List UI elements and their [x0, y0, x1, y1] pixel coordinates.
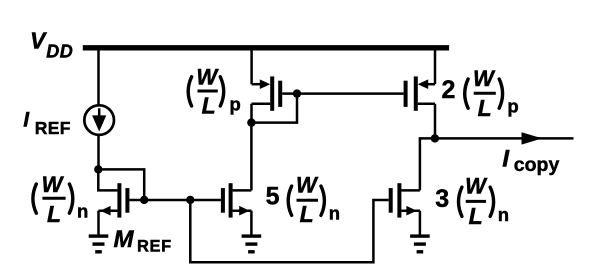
wire gate bus down and across to M3 gate [190, 200, 388, 262]
svg-text:n: n [329, 202, 340, 223]
label (W/L)n for MREF [33, 172, 88, 227]
label IREF [23, 109, 71, 138]
svg-text:2: 2 [442, 76, 456, 104]
transistor M3 3(W/L)n (NMOS, gate on left) [389, 183, 420, 217]
svg-text:L: L [478, 95, 492, 121]
svg-text:REF: REF [35, 118, 71, 138]
wire MP2 drain down to node F [434, 104, 437, 139]
label 3(W/L)n [435, 174, 509, 230]
svg-text:p: p [507, 96, 518, 117]
svg-text:L: L [202, 92, 216, 118]
svg-text:n: n [77, 201, 88, 222]
svg-text:5: 5 [266, 183, 280, 211]
wire IREF to node A [97, 136, 100, 170]
svg-text:copy: copy [514, 154, 560, 176]
wire VDD to MP1 source [250, 48, 253, 84]
svg-text:L: L [300, 201, 314, 227]
transistor MP2 2(W/L)p (PMOS, gate on left) [404, 76, 435, 110]
svg-text:W: W [42, 172, 65, 197]
ground (M3 source) [410, 234, 430, 253]
svg-text:DD: DD [46, 41, 73, 61]
wire M5 source to ground [250, 211, 253, 236]
svg-text:I: I [502, 146, 510, 173]
ground (MREF source) [89, 234, 109, 253]
wire M5 drain up to node D [250, 123, 253, 191]
svg-text:3: 3 [435, 185, 449, 213]
svg-text:V: V [30, 28, 47, 54]
VDD rail [83, 45, 449, 50]
node C junction dot (gate bus split) [186, 196, 194, 204]
current source IREF [84, 105, 114, 135]
wire node F jog to M3 drain [420, 138, 435, 190]
node D junction dot (M5 drain / MP1 drain) [247, 118, 255, 126]
wire PMOS gate bus to MP2 [297, 92, 404, 95]
label 5(W/L)n [266, 172, 340, 227]
svg-text:W: W [473, 66, 496, 91]
svg-text:REF: REF [137, 238, 172, 256]
svg-text:L: L [469, 203, 483, 229]
label (W/L)p [188, 65, 241, 119]
svg-text:p: p [230, 93, 241, 114]
wire node A down to MREF drain [98, 169, 117, 190]
node F junction dot (Icopy node) [431, 134, 439, 142]
svg-text:W: W [296, 172, 319, 197]
wire VDD to MP2 source [434, 48, 437, 84]
node B junction dot (MREF gate/drain tie) [140, 196, 148, 204]
wire node A to MREF gate column [98, 169, 144, 200]
transistor MREF (NMOS, mirrored, gate on right) [99, 183, 145, 217]
svg-text:W: W [196, 65, 219, 90]
svg-text:L: L [47, 201, 61, 227]
wire Icopy output with arrow [435, 132, 574, 144]
svg-text:M: M [114, 226, 135, 253]
ground (M5 source) [242, 234, 262, 253]
svg-text:W: W [465, 174, 488, 199]
wire MREF source to ground [97, 211, 100, 236]
wire MP1 drain down to node D [250, 104, 253, 123]
wire node D to PMOS gate node [251, 94, 297, 123]
wire VDD rail to IREF source [97, 48, 100, 105]
label 2(W/L)p [442, 66, 519, 121]
transistor M5 5(W/L)n (NMOS, gate on left) [221, 183, 252, 217]
transistor MP1 (W/L)p (PMOS, mirrored, gate on right) [252, 76, 298, 110]
node A junction dot [94, 165, 102, 173]
svg-text:n: n [498, 204, 509, 225]
label Icopy [502, 146, 559, 176]
wire M3 source to ground [419, 211, 422, 236]
label VDD [30, 28, 73, 62]
wire gate bus MREF to M5 [144, 199, 221, 202]
node E junction dot (PMOS gate node) [293, 89, 301, 97]
label MREF [114, 226, 172, 255]
